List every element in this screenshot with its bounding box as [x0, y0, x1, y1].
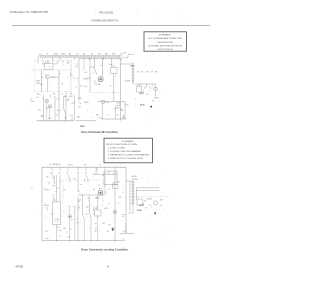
- svg-text:L1 120VAC N: L1 120VAC N: [49, 163, 62, 166]
- svg-text:47035: 47035: [15, 264, 23, 268]
- interlock switch box: [113, 184, 118, 188]
- svg-text:3: 3: [63, 65, 64, 67]
- wire x97.7: [97, 195, 99, 210]
- bus node dots: [56, 240, 57, 241]
- lamp wires: [46, 103, 48, 121]
- dashed interlock bus: [129, 196, 170, 198]
- convection motor M1: [98, 77, 103, 82]
- sensor lead wire: [47, 79, 49, 92]
- svg-text:L1: L1: [30, 99, 32, 101]
- svg-text:MDL: MDL: [117, 181, 121, 183]
- top bus wire: [79, 57, 121, 59]
- svg-text:BK: BK: [70, 229, 73, 231]
- svg-text:J2: J2: [61, 83, 63, 85]
- hi-limit thermostat: [95, 210, 102, 216]
- svg-text:OR: OR: [46, 108, 49, 110]
- svg-text:R: R: [79, 191, 81, 193]
- svg-text:R: R: [67, 76, 69, 78]
- svg-text:BR: BR: [63, 190, 66, 192]
- terminal row tick dots: [38, 55, 120, 58]
- wiring harness run: [38, 55, 121, 58]
- EOC control board dashed outline: [35, 60, 72, 91]
- oven sensor RTD: [46, 75, 50, 79]
- lower right bus: [101, 118, 126, 120]
- stray conductor marks lower area lower schematic: [45, 207, 126, 238]
- scan noise speckles: [11, 8, 192, 252]
- motor relay circle: [117, 103, 120, 106]
- svg-text:P-12: P-12: [57, 110, 61, 112]
- stray conductor marks upper area: [40, 63, 104, 89]
- svg-text:1. DOOR CLOSED: 1. DOOR CLOSED: [108, 148, 126, 150]
- top bus wire lower schematic: [42, 166, 126, 168]
- svg-text:RD: RD: [67, 63, 70, 65]
- svg-text:RY1: RY1: [45, 62, 49, 64]
- svg-text:3: 3: [45, 203, 46, 205]
- svg-text:12: 12: [73, 102, 75, 104]
- svg-text:CT: CT: [108, 189, 111, 191]
- svg-text:R: R: [81, 195, 83, 197]
- stray conductor marks upper area lower schematic: [45, 172, 124, 205]
- svg-text:BU: BU: [114, 173, 117, 175]
- svg-text:BN: BN: [96, 115, 99, 117]
- right vertical wire x155.6: [155, 84, 157, 97]
- fan lower lead: [77, 197, 79, 241]
- bottom bus wire segment A: [37, 120, 74, 122]
- svg-text:BU: BU: [57, 227, 60, 229]
- wire vertical x89.3 switch: [88, 195, 90, 213]
- broil element return wire: [132, 206, 134, 213]
- svg-text:J2: J2: [54, 183, 56, 185]
- svg-text:6: 6: [45, 216, 46, 218]
- arrow marker dark: [111, 229, 114, 231]
- svg-text:W: W: [160, 205, 162, 207]
- broil element feed wire: [126, 180, 133, 182]
- svg-text:BK: BK: [78, 207, 81, 209]
- svg-text:OR: OR: [78, 107, 81, 109]
- scattered labels lower schematic: [44, 189, 122, 233]
- right section bus wire y84: [135, 83, 157, 85]
- wire vertical x63.7 switch: [63, 96, 65, 109]
- svg-text:MDL: MDL: [77, 117, 81, 119]
- svg-text:N: N: [75, 87, 77, 89]
- lamp circle right: [113, 210, 116, 213]
- svg-text:BK: BK: [53, 94, 56, 96]
- svg-text:W: W: [142, 71, 144, 73]
- svg-text:OR: OR: [68, 237, 71, 239]
- selector switch contacts: [52, 175, 54, 180]
- svg-text:GY: GY: [52, 195, 55, 197]
- svg-text:DOOR AND SWITCHES SHOWN IN: DOOR AND SWITCHES SHOWN IN: [148, 44, 182, 47]
- svg-text:2750W: 2750W: [132, 179, 138, 181]
- door latch cam circle: [154, 87, 158, 91]
- EOC pin stub wires: [37, 60, 39, 63]
- left rail wire: [41, 167, 43, 240]
- svg-text:W-BK: W-BK: [154, 98, 159, 100]
- wire vertical x74.6: [74, 95, 76, 121]
- right section pin label row: [137, 71, 158, 73]
- wire vertical x43.7: [43, 95, 45, 121]
- wire vertical x105 lower: [104, 175, 106, 195]
- svg-text:Y: Y: [87, 110, 89, 112]
- oven lamp DL2: [48, 105, 51, 108]
- bottom bus junction to right: [71, 114, 73, 121]
- latch cam circle lower: [154, 201, 158, 205]
- svg-text:GY: GY: [151, 71, 154, 73]
- svg-text:6: 6: [107, 264, 109, 268]
- dotted board boundary right: [69, 60, 71, 95]
- svg-text:BK-6: BK-6: [48, 118, 52, 120]
- svg-text:L1: L1: [108, 203, 110, 205]
- svg-text:GY: GY: [85, 173, 88, 175]
- svg-text:BK: BK: [51, 173, 54, 175]
- svg-text:BK-W: BK-W: [68, 164, 73, 166]
- bracket wires right of broil: [136, 187, 159, 189]
- mid bus wire y101.8: [97, 101, 125, 103]
- junction stub x97: [96, 167, 98, 174]
- header rule: [12, 25, 210, 27]
- svg-text:OR: OR: [108, 225, 111, 227]
- wire vertical x125 right: [124, 102, 126, 119]
- svg-text:6: 6: [93, 117, 94, 119]
- bottom bus wire segment B: [76, 120, 96, 122]
- relay K1 inside EOC: [45, 64, 54, 70]
- svg-text:W-BK: W-BK: [104, 208, 109, 210]
- svg-text:R: R: [74, 78, 76, 80]
- svg-text:W-BK: W-BK: [124, 105, 129, 107]
- svg-text:NO: NO: [64, 228, 67, 230]
- svg-text:P7: P7: [56, 115, 58, 117]
- svg-text:OR: OR: [77, 173, 80, 175]
- svg-text:Publication No. 5995447735: Publication No. 5995447735: [10, 10, 48, 14]
- left supply stub: [31, 101, 35, 103]
- svg-text:R: R: [90, 228, 92, 230]
- svg-text:2. COOKING TIME PROGRAMMED: 2. COOKING TIME PROGRAMMED: [108, 150, 142, 153]
- svg-text:RD: RD: [119, 197, 122, 199]
- wire vertical x102.2 lower: [101, 102, 103, 119]
- wire stub x84: [83, 58, 85, 70]
- labels above bottom bus: [42, 115, 72, 120]
- chassis ground symbol lower: [154, 213, 157, 215]
- svg-text:SENSOR: SENSOR: [50, 77, 59, 79]
- wire vertical x74.9 full: [74, 206, 76, 241]
- wire into coil: [56, 175, 58, 202]
- svg-text:MDL: MDL: [46, 190, 50, 192]
- svg-text:Oven Schematic-cooling Conditi: Oven Schematic-cooling Condition: [81, 248, 128, 252]
- svg-text:NC: NC: [51, 214, 54, 216]
- svg-text:DLB: DLB: [59, 230, 63, 232]
- svg-text:NC: NC: [144, 201, 147, 203]
- wire x69.8: [69, 206, 71, 215]
- svg-text:RD: RD: [46, 176, 49, 178]
- svg-text:OFF POSITION: OFF POSITION: [158, 49, 173, 51]
- svg-text:V: V: [95, 173, 97, 175]
- notes box N2 (oven conditions): [104, 138, 153, 163]
- right rail corner wire: [125, 167, 127, 233]
- svg-text:GY: GY: [86, 207, 89, 209]
- harness drop wires: [37, 57, 39, 60]
- svg-text:V: V: [104, 186, 106, 188]
- svg-text:NO: NO: [80, 86, 83, 88]
- wire vertical x115 lower: [114, 175, 116, 241]
- stray conductor marks lower area: [36, 96, 130, 119]
- svg-text:3: 3: [131, 203, 132, 205]
- door latch switch SW1: [94, 58, 96, 69]
- svg-text:3400W: 3400W: [125, 81, 131, 83]
- terminal labels under bus: [51, 173, 117, 175]
- svg-text:W-BK: W-BK: [83, 78, 88, 80]
- svg-text:V: V: [70, 115, 72, 117]
- svg-text:P2-A: P2-A: [137, 209, 142, 212]
- relay module outline box: [104, 171, 117, 185]
- svg-text:RD: RD: [77, 223, 80, 225]
- broil element resistor: [132, 181, 134, 206]
- svg-text:LT1: LT1: [38, 110, 41, 112]
- svg-text:BN: BN: [155, 71, 158, 73]
- wire vertical x111.8: [111, 58, 113, 67]
- dotted board boundary lower: [30, 69, 72, 71]
- svg-text:DLB: DLB: [78, 98, 82, 100]
- svg-text:W-BK: W-BK: [84, 102, 89, 104]
- svg-text:GY: GY: [64, 118, 67, 120]
- thermal fuse component: [68, 215, 72, 219]
- svg-text:Oven Schematic-RH Condition: Oven Schematic-RH Condition: [81, 130, 118, 134]
- neutral tail wire: [125, 222, 127, 233]
- extra top labels lower schematic: [68, 164, 101, 166]
- top schematic terminal label row: [40, 54, 123, 56]
- svg-text:Y: Y: [102, 63, 104, 65]
- svg-text:CONV: CONV: [95, 84, 101, 86]
- svg-text:NORM45-SD-KRMA-TXJ: NORM45-SD-KRMA-TXJ: [92, 19, 119, 23]
- svg-text:3. THERMOSTAT CLOSED/OVEN HEA: 3. THERMOSTAT CLOSED/OVEN HEATING: [108, 153, 150, 156]
- hidden wiring dotted y92: [90, 91, 118, 93]
- svg-text:V: V: [108, 115, 110, 117]
- svg-text:C: C: [63, 211, 65, 213]
- svg-text:P2-A: P2-A: [140, 103, 145, 106]
- svg-text:BK: BK: [161, 200, 164, 202]
- svg-text:BU: BU: [41, 77, 44, 79]
- wire vertical x55: [54, 96, 56, 121]
- svg-text:C: C: [149, 91, 151, 93]
- svg-text:HLT: HLT: [95, 208, 99, 210]
- cluster extra marks lower right: [131, 201, 162, 210]
- svg-text:J2: J2: [67, 100, 69, 102]
- svg-text:BK: BK: [124, 53, 127, 55]
- junction dots lower bus: [42, 240, 125, 242]
- svg-text:RD: RD: [84, 164, 87, 166]
- svg-text:MOT: MOT: [140, 93, 145, 95]
- svg-text:DLB: DLB: [54, 63, 58, 65]
- svg-text:J2: J2: [71, 220, 73, 222]
- svg-text:W: W: [99, 164, 101, 166]
- svg-text:BU: BU: [85, 72, 88, 74]
- cooling fan motor: [98, 190, 103, 195]
- wire vertical x79: [78, 58, 80, 102]
- svg-text:W-BK: W-BK: [147, 199, 152, 201]
- svg-text:RD: RD: [97, 198, 100, 200]
- svg-text:NOTED CONDITIONS OF OVEN:: NOTED CONDITIONS OF OVEN:: [106, 144, 138, 146]
- broil relay circle: [102, 100, 105, 103]
- wire heater top feed: [120, 58, 122, 120]
- svg-text:SCHEMATIC: SCHEMATIC: [122, 140, 135, 143]
- wire vertical x102.6: [102, 58, 104, 76]
- svg-text:BK-W: BK-W: [44, 205, 49, 207]
- bake element resistor: [132, 65, 134, 85]
- oven lamp DL1: [45, 99, 48, 102]
- svg-text:W: W: [59, 173, 61, 175]
- mid horizontal link y195: [78, 194, 105, 196]
- svg-text:W: W: [107, 231, 109, 233]
- svg-text:N-1: N-1: [45, 231, 48, 233]
- svg-text:P: P: [93, 73, 95, 75]
- chassis ground symbol: [150, 106, 153, 108]
- latch motor block: [137, 86, 142, 92]
- wire vertical x82.4 broken switch: [81, 195, 83, 213]
- svg-text:OR: OR: [146, 71, 149, 73]
- svg-text:R: R: [67, 173, 69, 175]
- svg-text:OR: OR: [36, 97, 39, 99]
- svg-text:FRS-26ZSGB: FRS-26ZSGB: [99, 11, 113, 15]
- svg-text:6: 6: [135, 99, 136, 101]
- svg-text:BK: BK: [137, 71, 140, 73]
- svg-text:L1: L1: [31, 188, 33, 190]
- svg-text:BAKE: BAKE: [130, 64, 136, 67]
- svg-text:4. TIMER SET FOR COOKING MODE: 4. TIMER SET FOR COOKING MODE: [108, 158, 144, 160]
- right bus drop wires: [139, 84, 141, 87]
- wire from coil to bus: [56, 225, 58, 241]
- svg-text:BK: BK: [152, 101, 155, 103]
- drop wires from top bus: [51, 167, 53, 171]
- svg-text:DLS: DLS: [91, 67, 95, 69]
- svg-text:BR: BR: [112, 227, 115, 229]
- TDO thermal switch block: [111, 67, 117, 73]
- wire vertical left L1: [41, 70, 43, 92]
- wire vertical x59: [58, 70, 60, 121]
- svg-text:ALL VOLTAGES ARE 120VAC LINE: ALL VOLTAGES ARE 120VAC LINE: [148, 37, 182, 40]
- wire TCO to lower bus: [113, 74, 115, 102]
- latch motor block lower: [137, 199, 142, 205]
- cross wire y174.5: [92, 174, 118, 176]
- svg-text:6: 6: [109, 174, 110, 176]
- right cluster extra marks: [135, 88, 155, 103]
- dashed control outline lower: [63, 180, 103, 206]
- svg-text:NO: NO: [145, 208, 148, 210]
- wire vertical x78: [77, 175, 79, 192]
- svg-text:TN: TN: [79, 103, 82, 105]
- wire vertical x115.7 lower: [115, 106, 117, 119]
- stepped feed wire top right: [121, 55, 135, 61]
- svg-text:NC: NC: [144, 88, 147, 90]
- svg-text:HL: HL: [93, 189, 95, 191]
- svg-text:W-BK: W-BK: [68, 96, 73, 98]
- svg-text:RTD: RTD: [36, 81, 40, 83]
- svg-text:GRN: GRN: [80, 126, 85, 128]
- svg-text:SCHEMATIC: SCHEMATIC: [159, 34, 172, 37]
- wire vertical x60 long: [59, 175, 61, 201]
- svg-text:R: R: [95, 232, 97, 234]
- svg-text:MOT: MOT: [140, 205, 145, 207]
- svg-text:OR: OR: [123, 231, 126, 233]
- svg-text:N: N: [122, 192, 124, 194]
- scattered labels row1: [37, 94, 110, 119]
- wire vertical x66: [65, 92, 67, 121]
- svg-text:R: R: [62, 94, 64, 96]
- lower right vertical wire x130: [129, 181, 131, 211]
- svg-text:UNLESS NOTED: UNLESS NOTED: [157, 42, 174, 44]
- relay coil box tall: [53, 202, 61, 225]
- svg-text:NO: NO: [146, 94, 149, 96]
- wire vertical x90 upper: [89, 58, 91, 92]
- coil internal marks: [55, 218, 59, 220]
- notes box N1 (schematic notes): [144, 32, 187, 51]
